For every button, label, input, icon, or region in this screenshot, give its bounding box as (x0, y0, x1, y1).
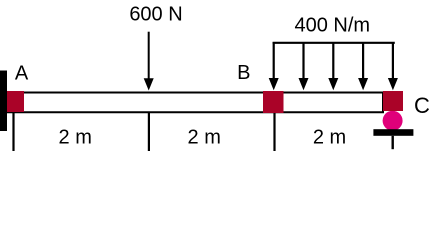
support B (red square) (263, 91, 284, 113)
dimension tick at B (273, 113, 275, 151)
svg-text:600 N: 600 N (129, 4, 182, 26)
distributed load bracket line (273, 42, 395, 44)
svg-text:2 m: 2 m (59, 127, 92, 149)
roller circle at C (383, 111, 403, 131)
support A (red square) (7, 91, 24, 112)
distributed load arrow 1 (269, 42, 279, 90)
ground bar under roller C (373, 129, 413, 136)
svg-text:2 m: 2 m (188, 127, 221, 149)
svg-text:C: C (414, 93, 430, 118)
point load 600 N arrow (144, 32, 154, 91)
dimension tick under 600 N load (148, 113, 150, 151)
svg-text:B: B (237, 62, 250, 84)
distributed load arrow 5 (388, 42, 398, 90)
support C (red square) (383, 91, 403, 111)
distributed load arrow 2 (299, 42, 309, 90)
distributed load arrow 4 (358, 42, 368, 90)
tick below ground bar at C (392, 136, 394, 149)
distributed load arrow 3 (328, 42, 338, 90)
wall support at A (0, 71, 7, 132)
svg-text:2 m: 2 m (313, 127, 346, 149)
svg-text:400 N/m: 400 N/m (295, 15, 371, 37)
svg-text:A: A (15, 62, 29, 84)
beam (8, 93, 383, 113)
dimension tick at A (12, 112, 14, 151)
